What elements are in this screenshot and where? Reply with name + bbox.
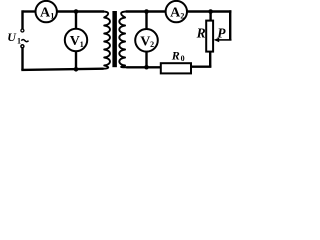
resistor R0 body bbox=[161, 63, 191, 73]
transformer core bbox=[112, 11, 117, 67]
wire V1 top lead bbox=[75, 12, 77, 30]
wiper arm of rheostat bbox=[219, 39, 232, 41]
ammeter A1 bbox=[36, 1, 57, 22]
svg-text:R: R bbox=[196, 25, 206, 40]
wire right vertical to wiper bbox=[229, 10, 231, 40]
wire left vertical lower bbox=[21, 48, 23, 70]
wire left vertical upper bbox=[21, 10, 23, 29]
transformer primary winding bbox=[103, 12, 110, 69]
svg-text:1: 1 bbox=[80, 40, 84, 49]
AC tilde bbox=[21, 40, 28, 42]
transformer secondary winding bbox=[119, 12, 126, 68]
wire V2 bottom to R0 bbox=[126, 66, 160, 68]
wire R top lead bbox=[209, 12, 211, 22]
svg-text:2: 2 bbox=[150, 40, 154, 49]
wire A2 to right corner bbox=[187, 10, 231, 12]
svg-text:V: V bbox=[140, 34, 150, 49]
wire V1 bottom lead bbox=[75, 51, 77, 69]
node bottom of V2 bbox=[144, 65, 149, 70]
svg-text:2: 2 bbox=[180, 11, 184, 20]
svg-text:V: V bbox=[70, 34, 80, 49]
node top of V1 bbox=[74, 9, 79, 14]
wire bottom-left horizontal bbox=[21, 69, 103, 70]
wire bottom right segment bbox=[191, 65, 211, 67]
resistor R body bbox=[206, 21, 213, 52]
wiper arrowhead P bbox=[214, 38, 220, 43]
wire top-left horizontal bbox=[23, 10, 36, 12]
node top of V2 bbox=[144, 9, 149, 14]
node top of R bbox=[208, 9, 213, 14]
svg-text:R: R bbox=[171, 49, 180, 63]
svg-text:1: 1 bbox=[50, 11, 54, 20]
wire A1 to transformer bbox=[57, 10, 104, 12]
source terminal bottom bbox=[21, 45, 24, 48]
ammeter A2 bbox=[166, 1, 187, 22]
node bottom of V1 bbox=[74, 67, 79, 72]
svg-text:A: A bbox=[40, 6, 51, 21]
source terminal top bbox=[21, 29, 24, 32]
svg-text:U: U bbox=[7, 30, 17, 44]
wire R bottom lead bbox=[209, 51, 211, 66]
wire secondary top to A2 bbox=[126, 10, 166, 12]
wire V2 bottom lead bbox=[145, 52, 147, 68]
svg-text:1: 1 bbox=[17, 36, 21, 45]
voltmeter V1 bbox=[65, 29, 87, 51]
svg-text:0: 0 bbox=[181, 54, 185, 63]
svg-text:P: P bbox=[217, 25, 226, 40]
voltmeter V2 bbox=[135, 29, 158, 52]
wire V2 top lead bbox=[145, 12, 147, 30]
